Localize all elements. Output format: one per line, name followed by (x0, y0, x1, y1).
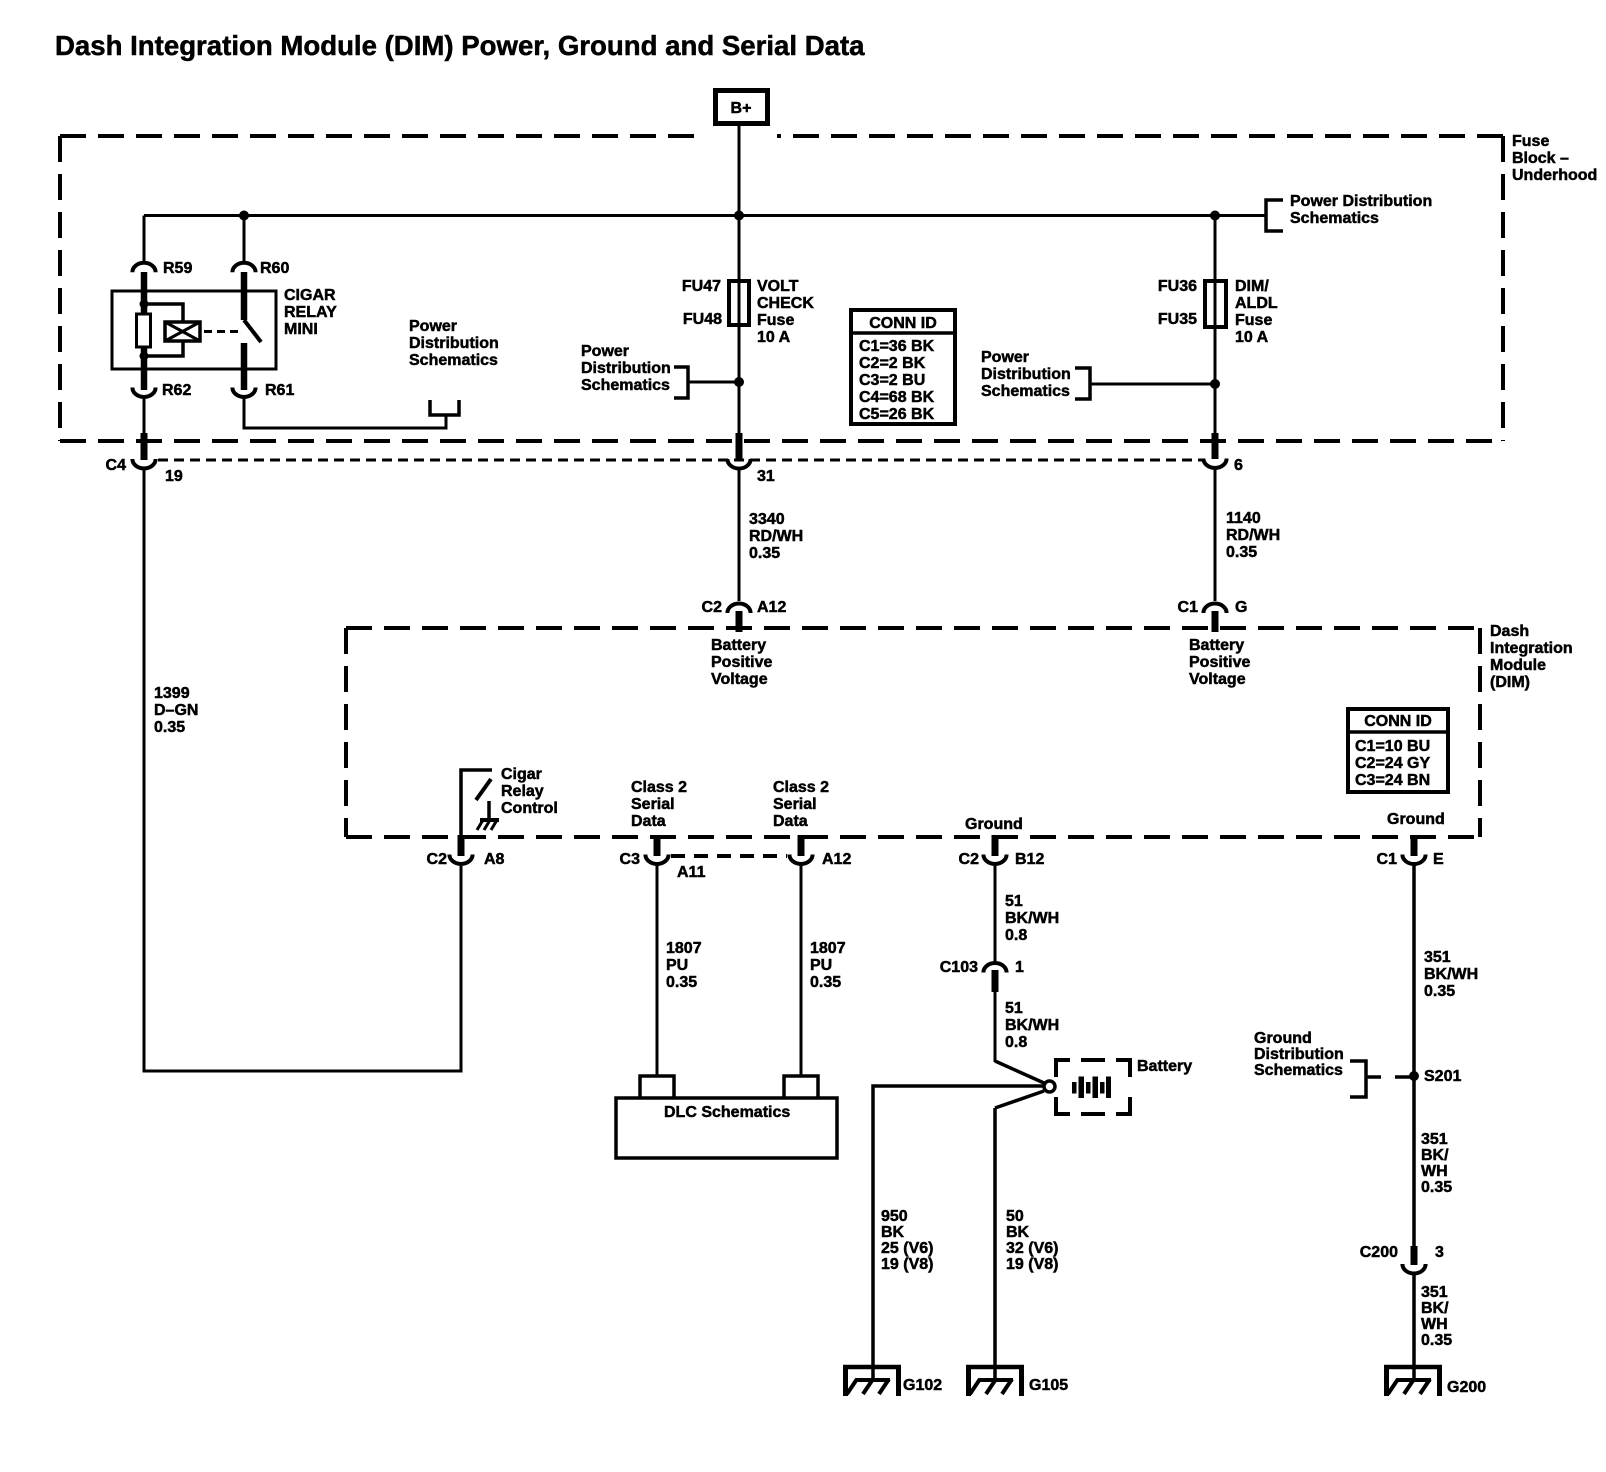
svg-text:R61: R61 (265, 382, 294, 399)
wire B+ to fuse FU47 and connector 31 (738, 126, 741, 440)
svg-text:E: E (1433, 851, 1444, 868)
svg-text:Power: Power (581, 343, 629, 360)
label wire 1807 (left) (666, 940, 702, 991)
wire to relay R59 (143, 216, 146, 263)
relay lower coil stub (141, 347, 148, 390)
label Battery Positive Voltage (right) (1189, 637, 1250, 688)
svg-text:CIGAR: CIGAR (284, 287, 336, 304)
svg-text:C200: C200 (1360, 1244, 1398, 1261)
svg-text:C3=2 BU: C3=2 BU (859, 372, 925, 389)
splice S201 (1409, 1068, 1461, 1085)
svg-text:6: 6 (1234, 457, 1243, 474)
svg-text:Voltage: Voltage (711, 671, 768, 688)
connector C2 pin B12 (959, 835, 1045, 868)
svg-text:1807: 1807 (666, 940, 702, 957)
svg-text:10 A: 10 A (1235, 329, 1269, 346)
svg-text:C3: C3 (620, 851, 641, 868)
svg-text:S201: S201 (1424, 1068, 1461, 1085)
svg-text:1399: 1399 (154, 685, 190, 702)
B+ battery feed symbol (716, 91, 768, 124)
svg-text:Distribution: Distribution (1254, 1046, 1344, 1063)
svg-text:C1: C1 (1178, 599, 1199, 616)
battery symbol dashed box (1056, 1060, 1130, 1114)
label Class 2 Serial Data (right) (773, 779, 829, 830)
svg-text:Schematics: Schematics (581, 377, 670, 394)
junction node coil bottom (140, 352, 149, 361)
wire 51 BK/WH (B12 to C103) (994, 865, 997, 962)
svg-text:Schematics: Schematics (981, 383, 1070, 400)
svg-text:ALDL: ALDL (1235, 295, 1278, 312)
svg-text:C4: C4 (106, 457, 127, 474)
junction node at B+ tap (734, 211, 744, 221)
svg-text:0.35: 0.35 (810, 974, 841, 991)
svg-text:BK: BK (881, 1224, 905, 1241)
svg-text:Cigar: Cigar (501, 766, 542, 783)
svg-text:C103: C103 (940, 959, 978, 976)
svg-text:Serial: Serial (631, 796, 675, 813)
wire 351 BK/WH (C200 to G200) (1412, 1274, 1416, 1379)
connector C2 pin A12 (DIM top) (702, 599, 787, 632)
svg-text:50: 50 (1006, 1208, 1024, 1225)
svg-text:C2: C2 (427, 851, 448, 868)
label wire 51 (lower) (1005, 1000, 1059, 1051)
svg-text:3340: 3340 (749, 511, 785, 528)
svg-text:Distribution: Distribution (981, 366, 1071, 383)
svg-text:VOLT: VOLT (757, 278, 799, 295)
svg-text:Underhood: Underhood (1512, 167, 1597, 184)
svg-text:0.8: 0.8 (1005, 1034, 1027, 1051)
svg-text:51: 51 (1005, 893, 1023, 910)
svg-text:CONN ID: CONN ID (869, 315, 937, 332)
svg-text:C2=2 BK: C2=2 BK (859, 355, 926, 372)
svg-text:C2: C2 (959, 851, 980, 868)
svg-text:Fuse: Fuse (1512, 133, 1549, 150)
relay coil branch loop wire (144, 304, 183, 356)
label wire 1140 (1226, 510, 1280, 561)
svg-text:Fuse: Fuse (1235, 312, 1272, 329)
svg-text:Dash: Dash (1490, 623, 1529, 640)
svg-text:A12: A12 (757, 599, 786, 616)
svg-text:Schematics: Schematics (409, 352, 498, 369)
svg-text:Serial: Serial (773, 796, 817, 813)
svg-text:19 (V8): 19 (V8) (1006, 1256, 1058, 1273)
ground G200 (1384, 1365, 1486, 1396)
svg-text:Positive: Positive (711, 654, 772, 671)
wire to relay R60 (243, 216, 246, 263)
svg-text:25 (V6): 25 (V6) (881, 1240, 933, 1257)
svg-text:G102: G102 (903, 1377, 942, 1394)
svg-text:10 A: 10 A (757, 329, 791, 346)
svg-text:Ground: Ground (1254, 1030, 1312, 1047)
connector C2 pin A8 (427, 835, 505, 868)
svg-text:R59: R59 (163, 260, 192, 277)
svg-text:0.35: 0.35 (749, 545, 780, 562)
battery cell plates (1072, 1077, 1111, 1099)
svg-text:G: G (1235, 599, 1247, 616)
svg-text:1140: 1140 (1226, 510, 1261, 527)
svg-text:Schematics: Schematics (1254, 1062, 1343, 1079)
svg-text:0.35: 0.35 (1421, 1179, 1452, 1196)
svg-text:Battery: Battery (1189, 637, 1244, 654)
fuse FU36 DIM/ALDL (1158, 278, 1278, 346)
connector C103 pin 1 (940, 959, 1024, 992)
svg-text:Fuse: Fuse (757, 312, 794, 329)
svg-text:1807: 1807 (810, 940, 846, 957)
svg-text:A11: A11 (677, 864, 706, 881)
relay connector R59 (132, 260, 192, 314)
svg-text:RD/WH: RD/WH (1226, 527, 1280, 544)
relay actuator dashed link (204, 330, 240, 333)
svg-text:FU35: FU35 (1158, 311, 1197, 328)
connector 31 (727, 433, 774, 485)
svg-text:D–GN: D–GN (154, 702, 198, 719)
svg-text:Dash Integration Module (DIM): Dash Integration Module (DIM) Power, Gro… (55, 30, 865, 61)
svg-text:(DIM): (DIM) (1490, 674, 1530, 691)
relay CIGAR RELAY MINI box (112, 287, 337, 369)
svg-text:0.35: 0.35 (154, 719, 185, 736)
connector C3 pin A11 (620, 835, 706, 881)
svg-text:RELAY: RELAY (284, 304, 337, 321)
relay switch lower contact (241, 343, 248, 390)
wire to G105 (993, 1108, 997, 1379)
svg-text:FU48: FU48 (683, 311, 722, 328)
svg-text:CHECK: CHECK (757, 295, 814, 312)
svg-text:Battery: Battery (711, 637, 766, 654)
label wire 3340 (749, 511, 803, 562)
svg-text:Schematics: Schematics (1290, 210, 1379, 227)
relay connector R60 (232, 260, 289, 320)
junction node at FU36 tap (1210, 211, 1220, 221)
svg-text:19: 19 (165, 468, 183, 485)
label Fuse Block - Underhood (1512, 133, 1597, 184)
relay switch arm (244, 320, 261, 342)
svg-text:Positive: Positive (1189, 654, 1250, 671)
splice diagonal upper (995, 1061, 1044, 1083)
svg-text:Voltage: Voltage (1189, 671, 1246, 688)
relay connector R62 (132, 382, 191, 399)
svg-text:MINI: MINI (284, 321, 318, 338)
svg-text:Ground: Ground (1387, 811, 1445, 828)
svg-text:PU: PU (810, 957, 832, 974)
svg-text:31: 31 (757, 468, 775, 485)
svg-text:0.8: 0.8 (1005, 927, 1027, 944)
off-page U bracket (power distribution schematics lower-left) (409, 318, 499, 415)
svg-text:51: 51 (1005, 1000, 1023, 1017)
DLC staple connector (left) (640, 1076, 674, 1098)
svg-text:32 (V6): 32 (V6) (1006, 1240, 1058, 1257)
svg-text:BK/: BK/ (1421, 1147, 1449, 1164)
svg-text:FU47: FU47 (682, 278, 721, 295)
wire 1399 D-GN (C4 to A8) (144, 469, 461, 1071)
relay coil symbol (165, 322, 200, 341)
svg-text:WH: WH (1421, 1316, 1448, 1333)
svg-text:Distribution: Distribution (581, 360, 671, 377)
svg-text:Power: Power (981, 349, 1029, 366)
svg-text:Data: Data (773, 813, 808, 830)
label wire 950 BK (881, 1208, 933, 1273)
svg-text:C1=36 BK: C1=36 BK (859, 338, 935, 355)
svg-text:351: 351 (1424, 949, 1451, 966)
svg-text:FU36: FU36 (1158, 278, 1197, 295)
wire FU36 drop (1214, 216, 1217, 441)
svg-text:BK/WH: BK/WH (1424, 966, 1478, 983)
wire R61 to off-page bracket (244, 396, 446, 428)
off-page bracket Ground Distribution Schematics (1254, 1030, 1410, 1097)
off-page bracket Power Distribution Schematics (left, to FU47 wire) (581, 343, 744, 398)
DLC Schematics box (616, 1098, 837, 1158)
label wire 1807 (right) (810, 940, 846, 991)
connector C200 pin 3 (1360, 1244, 1444, 1274)
svg-text:Class 2: Class 2 (773, 779, 829, 796)
svg-text:BK: BK (1006, 1224, 1030, 1241)
connector 6 (1203, 433, 1243, 474)
splice eyelet at battery (1044, 1081, 1055, 1092)
CONN ID table (fuse block) (851, 310, 955, 424)
DLC staple connector (right) (784, 1076, 818, 1098)
connector C1 pin G (DIM top) (1178, 599, 1248, 632)
svg-text:BK/WH: BK/WH (1005, 910, 1059, 927)
label Battery Positive Voltage (left) (711, 637, 772, 688)
svg-text:C1=10 BU: C1=10 BU (1355, 738, 1430, 755)
svg-text:Class 2: Class 2 (631, 779, 687, 796)
wire 3340 RD/WH (31 to C2 A12) (738, 469, 741, 601)
connector C1 pin E (1377, 835, 1444, 868)
svg-text:DIM/: DIM/ (1235, 278, 1269, 295)
svg-text:Battery: Battery (1137, 1058, 1192, 1075)
wire 1807 PU (A12 to DLC) (800, 865, 803, 1076)
label wire 1399 (154, 685, 198, 736)
svg-text:C1: C1 (1377, 851, 1398, 868)
CONN ID table (DIM) (1348, 709, 1448, 792)
junction node at R60 tap (239, 211, 249, 221)
svg-text:A12: A12 (822, 851, 851, 868)
label Cigar Relay Control (501, 766, 558, 817)
junction node coil top (140, 300, 149, 309)
label wire 351 (upper) (1424, 949, 1478, 1000)
svg-text:WH: WH (1421, 1163, 1448, 1180)
svg-text:Block –: Block – (1512, 150, 1569, 167)
svg-text:RD/WH: RD/WH (749, 528, 803, 545)
svg-text:351: 351 (1421, 1131, 1448, 1148)
svg-text:C3=24 BN: C3=24 BN (1355, 772, 1430, 789)
svg-text:BK/WH: BK/WH (1005, 1017, 1059, 1034)
svg-text:G105: G105 (1029, 1377, 1068, 1394)
svg-text:19 (V8): 19 (V8) (881, 1256, 933, 1273)
cigar relay control driver symbol (461, 770, 499, 837)
label wire 351 (middle) (1421, 1131, 1452, 1196)
svg-text:Control: Control (501, 800, 558, 817)
DIM dashed box (346, 628, 1480, 837)
relay connector R61 (232, 382, 294, 399)
svg-text:1: 1 (1015, 959, 1024, 976)
svg-text:351: 351 (1421, 1284, 1448, 1301)
label Class 2 Serial Data (left) (631, 779, 687, 830)
svg-text:C2: C2 (702, 599, 723, 616)
wire 1807 PU (C3 A11 to DLC) (656, 865, 659, 1076)
svg-text:0.35: 0.35 (666, 974, 697, 991)
svg-text:Power Distribution: Power Distribution (1290, 193, 1432, 210)
wire R62 to C4 (143, 396, 146, 440)
svg-text:C4=68 BK: C4=68 BK (859, 389, 935, 406)
connector C4 pin 19 (106, 433, 183, 485)
svg-text:0.35: 0.35 (1424, 983, 1455, 1000)
svg-text:0.35: 0.35 (1421, 1332, 1452, 1349)
svg-text:950: 950 (881, 1208, 908, 1225)
dashed link C3 to A12 (671, 854, 787, 858)
wire 51 BK/WH (C103 to battery splice) (994, 992, 997, 1062)
svg-text:Relay: Relay (501, 783, 544, 800)
svg-text:G200: G200 (1447, 1379, 1486, 1396)
wire 1140 RD/WH (6 to C1 G) (1214, 469, 1217, 601)
off-page connector bracket Power Distribution Schematics (top right) (1266, 193, 1432, 231)
label Dash Integration Module (DIM) (1490, 623, 1573, 691)
svg-text:CONN ID: CONN ID (1364, 713, 1432, 730)
ground G102 (843, 1365, 942, 1396)
svg-text:3: 3 (1435, 1244, 1444, 1261)
svg-text:Integration: Integration (1490, 640, 1573, 657)
label wire 351 (lower) (1421, 1284, 1452, 1349)
svg-text:Ground: Ground (965, 816, 1023, 833)
svg-text:A8: A8 (484, 851, 505, 868)
svg-text:B12: B12 (1015, 851, 1044, 868)
svg-text:BK/: BK/ (1421, 1300, 1449, 1317)
svg-text:DLC Schematics: DLC Schematics (664, 1104, 790, 1121)
svg-text:C5=26 BK: C5=26 BK (859, 406, 935, 423)
svg-text:0.35: 0.35 (1226, 544, 1257, 561)
relay resistor (137, 314, 151, 347)
svg-text:R62: R62 (162, 382, 191, 399)
main horizontal bus wire (144, 214, 1266, 217)
connector pin A12 (serial) (789, 835, 851, 868)
splice diagonal lower (995, 1091, 1044, 1108)
connector line (dotted) (158, 459, 1203, 462)
fuse FU47 VOLT CHECK (682, 278, 814, 346)
svg-text:PU: PU (666, 957, 688, 974)
off-page bracket Power Distribution Schematics (mid, to FU36 wire) (981, 349, 1220, 400)
svg-text:Data: Data (631, 813, 666, 830)
svg-text:B+: B+ (731, 100, 752, 117)
svg-text:C2=24 GY: C2=24 GY (1355, 755, 1430, 772)
wire 351 BK/WH (C1 E to C200) (1412, 865, 1416, 1248)
wire to G102 (873, 1086, 1043, 1379)
label wire 50 BK (1006, 1208, 1058, 1273)
label wire 51 (upper) (1005, 893, 1059, 944)
fuse block underhood dashed box (60, 136, 1503, 441)
svg-text:Distribution: Distribution (409, 335, 499, 352)
ground G105 (966, 1365, 1068, 1396)
svg-text:R60: R60 (260, 260, 289, 277)
svg-text:Module: Module (1490, 657, 1546, 674)
svg-text:Power: Power (409, 318, 457, 335)
